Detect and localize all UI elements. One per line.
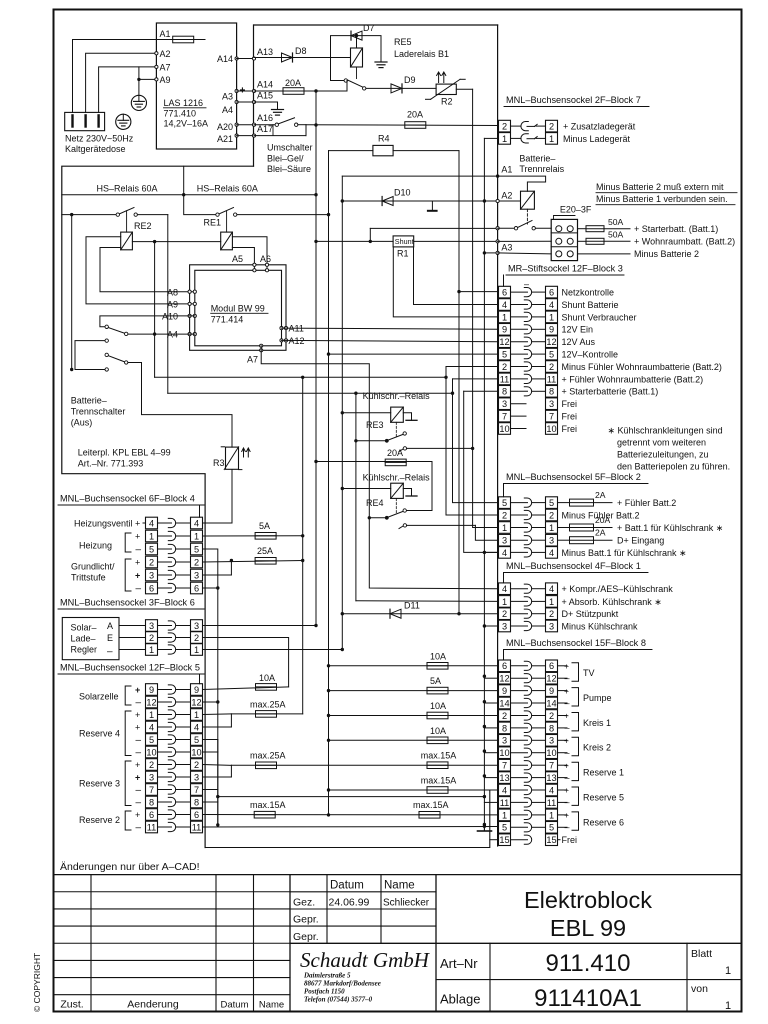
svg-text:A2: A2 — [501, 191, 512, 201]
svg-text:911.410: 911.410 — [546, 950, 631, 977]
svg-text:+ Zusatzladegerät: + Zusatzladegerät — [563, 122, 636, 132]
fuse max15A reserve1 — [427, 762, 448, 769]
svg-text:3: 3 — [502, 399, 507, 409]
svg-text:25A: 25A — [257, 546, 273, 556]
left block pin 10 left box — [146, 746, 158, 758]
wire RE2 coil upper left to A9 — [86, 237, 195, 304]
svg-text:Reserve 5: Reserve 5 — [583, 792, 624, 802]
diode D8 — [282, 53, 293, 62]
svg-text:Name: Name — [259, 1000, 284, 1011]
svg-text:8: 8 — [149, 797, 154, 807]
svg-text:Elektroblock: Elektroblock — [524, 887, 652, 913]
15F8 contact 8 — [511, 727, 528, 729]
wire 6F4 row6 — [203, 587, 218, 589]
wire L to LAS A1 — [73, 40, 157, 113]
wire coil link down to lower rail — [154, 242, 156, 378]
svg-text:RE3: RE3 — [366, 420, 384, 430]
svg-text:E20–3F: E20–3F — [560, 205, 592, 215]
svg-text:Schaudt GmbH: Schaudt GmbH — [300, 948, 431, 972]
svg-text:2: 2 — [149, 760, 154, 770]
svg-text:Umschalter: Umschalter — [267, 143, 313, 153]
4F1 pin 3 right box — [546, 620, 558, 632]
wire 12V-Kontrolle from bus — [327, 352, 330, 355]
MR pin 12 left box — [499, 336, 511, 348]
12F5 elbow — [199, 674, 201, 684]
4F1 pin 4 left box — [499, 583, 511, 595]
svg-text:2: 2 — [549, 362, 554, 372]
15F8 pin 15 right box — [546, 834, 558, 846]
15F8 bracket Reserve 6 — [572, 812, 579, 830]
svg-text:–: – — [136, 785, 142, 796]
svg-text:den Batteriepolen zu führen: den Batteriepolen zu führen. — [617, 462, 730, 472]
svg-text:12: 12 — [499, 674, 509, 684]
svg-text:MNL–Buchsensockel 3F–Block 6: MNL–Buchsensockel 3F–Block 6 — [60, 598, 195, 608]
svg-text:771.410: 771.410 — [164, 109, 197, 119]
svg-text:2: 2 — [502, 711, 507, 721]
svg-text:1: 1 — [549, 523, 554, 533]
15F8 pin 8 right box — [546, 722, 558, 734]
RE3 coil minus stub — [403, 413, 411, 421]
svg-text:Frei: Frei — [562, 424, 578, 434]
left block contact 5 — [158, 548, 172, 550]
svg-text:8: 8 — [194, 797, 199, 807]
Art-Nr row — [436, 942, 742, 944]
svg-text:3: 3 — [502, 536, 507, 546]
svg-text:A14: A14 — [217, 54, 233, 64]
svg-text:–: – — [565, 772, 570, 782]
svg-text:12: 12 — [546, 337, 556, 347]
svg-text:Reserve 2: Reserve 2 — [79, 815, 120, 825]
2F-7 contact 2 — [511, 125, 522, 127]
svg-text:5: 5 — [549, 350, 554, 360]
E20 contact circles — [556, 251, 562, 257]
svg-text:A6: A6 — [260, 254, 271, 264]
left block pin 10 right box — [191, 746, 203, 758]
svg-text:Batterie–: Batterie– — [71, 396, 107, 406]
title block grid — [54, 874, 742, 876]
svg-text:Änderungen nur über A–CAD!: Änderungen nur über A–CAD! — [60, 861, 200, 873]
svg-text:4: 4 — [502, 300, 507, 310]
5F2 fuse 20A — [558, 527, 570, 529]
wire max25A row2 long to block8 — [231, 764, 498, 766]
MR pin 3 left box — [499, 398, 511, 410]
svg-text:LAS 1216: LAS 1216 — [164, 98, 204, 108]
wire top loop — [183, 166, 185, 195]
svg-text:MR–Stiftsockel 12F–Block 3: MR–Stiftsockel 12F–Block 3 — [508, 264, 623, 274]
15F8 pin 6 left box — [499, 660, 511, 672]
left block pin 2 right box — [191, 632, 203, 644]
svg-text:5A: 5A — [430, 676, 441, 686]
15F8 pin 8 left box — [499, 722, 511, 734]
svg-text:7: 7 — [502, 761, 507, 771]
bus netzkontrolle vertical — [458, 151, 460, 614]
left block pin 3 right box — [191, 771, 203, 783]
svg-text:+: + — [135, 723, 140, 733]
wire 12F5 rows 2 3 join — [203, 764, 232, 767]
wire minus A3 line — [484, 252, 497, 254]
svg-text:4: 4 — [502, 584, 507, 594]
svg-text:Frei: Frei — [562, 412, 578, 422]
4F1 pin 1 left box — [499, 596, 511, 608]
svg-text:6: 6 — [502, 288, 507, 298]
svg-text:5: 5 — [502, 823, 507, 833]
svg-text:+: + — [564, 686, 569, 696]
5F2 fuse 2A — [558, 502, 570, 504]
svg-text:A20: A20 — [217, 122, 233, 132]
wire max25A row1 — [231, 713, 302, 715]
svg-text:Art–Nr: Art–Nr — [440, 956, 478, 971]
svg-text:+: + — [135, 760, 140, 770]
svg-text:Datum: Datum — [221, 1000, 249, 1011]
svg-text:5: 5 — [149, 544, 154, 554]
svg-text:6: 6 — [149, 810, 154, 820]
MR elbow — [503, 275, 505, 286]
svg-text:Lade–: Lade– — [71, 634, 96, 644]
15F8 pin 14 left box — [499, 697, 511, 709]
svg-text:4: 4 — [502, 785, 507, 795]
Modul BW99 outer box — [190, 265, 286, 351]
Trennschalter switch 1 — [105, 325, 108, 328]
svg-text:MNL–Buchsensockel 6F–Block 4: MNL–Buchsensockel 6F–Block 4 — [60, 494, 195, 504]
svg-text:13: 13 — [499, 773, 509, 783]
svg-text:+: + — [564, 760, 569, 770]
svg-text:+ Batt.1 für Kühlschrank ∗: + Batt.1 für Kühlschrank ∗ — [617, 523, 723, 533]
left block pin 9 left box — [146, 684, 158, 696]
4F1 contact 1 — [511, 600, 528, 602]
MR pin 2 contact — [511, 366, 528, 368]
svg-text:D8: D8 — [295, 46, 307, 56]
left block pin 1 right box — [191, 644, 203, 656]
protective earth symbol A9 — [131, 95, 146, 110]
diode D9 — [391, 84, 402, 93]
svg-text:–: – — [136, 698, 142, 709]
svg-text:Kreis 1: Kreis 1 — [583, 718, 611, 728]
chassis ground D7 — [375, 61, 387, 63]
bus minus fuehler vertical — [446, 367, 499, 516]
15F8 pin 7 right box — [546, 759, 558, 771]
svg-text:6: 6 — [194, 810, 199, 820]
15F8 pin 4 left box — [499, 784, 511, 796]
svg-text:A4: A4 — [167, 330, 178, 340]
wires solar box to 3F6 — [119, 625, 146, 627]
wire reserve3 minus to bus — [218, 796, 485, 798]
wire RE2 RE1 coil link — [132, 241, 220, 243]
svg-text:2A: 2A — [595, 528, 606, 538]
15F8 pin 5 left box — [499, 822, 511, 834]
svg-text:HS–Relais 60A: HS–Relais 60A — [197, 184, 258, 194]
RE5 switch — [331, 80, 345, 82]
MR pin 5 right box — [546, 348, 558, 360]
svg-text:Heizungsventil: Heizungsventil — [74, 519, 133, 529]
svg-text:HS–Relais 60A: HS–Relais 60A — [97, 184, 158, 194]
MR pin 4 left box — [499, 299, 511, 311]
2F-7 pin 1 left box — [499, 133, 511, 145]
fuse 20A charge line — [405, 122, 426, 129]
wire A7 down right — [261, 346, 498, 589]
svg-text:8: 8 — [502, 723, 507, 733]
MR pin 2 right box — [546, 361, 558, 373]
svg-text:A17: A17 — [257, 124, 273, 134]
svg-text:1: 1 — [549, 810, 554, 820]
svg-text:–: – — [565, 698, 570, 708]
svg-text:2: 2 — [149, 557, 154, 567]
left block pin 2 left box — [146, 632, 158, 644]
svg-text:MNL–Buchsensockel 5F–Block 2: MNL–Buchsensockel 5F–Block 2 — [506, 472, 641, 482]
svg-text:Gepr.: Gepr. — [293, 914, 319, 926]
wire 4F1 row1 feed — [356, 600, 499, 603]
left block contact 10 — [158, 751, 172, 753]
svg-text:8: 8 — [502, 387, 507, 397]
5F2 pin 1 right box — [546, 522, 558, 534]
svg-text:MNL–Buchsensockel 4F–Block 1: MNL–Buchsensockel 4F–Block 1 — [506, 561, 641, 571]
svg-text:11: 11 — [500, 374, 510, 384]
left block pin 7 left box — [146, 784, 158, 796]
svg-text:+: + — [135, 810, 140, 820]
dashed link coil to switch — [526, 209, 528, 224]
15F8 pin 11 right box — [546, 797, 558, 809]
svg-text:3: 3 — [194, 772, 199, 782]
15F8 bracket Kreis 2 — [572, 737, 579, 755]
svg-text:1: 1 — [725, 1000, 731, 1012]
svg-text:Frei: Frei — [562, 399, 578, 409]
svg-text:20A: 20A — [285, 78, 301, 88]
svg-text:Zust.: Zust. — [60, 999, 83, 1011]
svg-text:2: 2 — [502, 609, 507, 619]
svg-text:3: 3 — [549, 736, 554, 746]
fuse inside LAS on A1 — [156, 39, 205, 41]
left block pin 12 right box — [191, 696, 203, 708]
15F8 pin 13 right box — [546, 772, 558, 784]
svg-text:1: 1 — [502, 312, 507, 322]
svg-text:1: 1 — [549, 312, 554, 322]
15F8 pin 12 left box — [499, 672, 511, 684]
5F2 contact 3 — [511, 539, 528, 541]
svg-text:MNL–Buchsensockel 15F–Block: MNL–Buchsensockel 15F–Block 8 — [506, 638, 646, 648]
svg-text:11: 11 — [547, 374, 557, 384]
svg-text:12: 12 — [546, 674, 556, 684]
2F-7 contact 1 — [511, 137, 522, 139]
svg-text:Name: Name — [384, 880, 415, 892]
svg-text:–: – — [565, 673, 570, 683]
svg-text:2: 2 — [549, 122, 554, 132]
svg-text:Reserve 4: Reserve 4 — [79, 729, 120, 739]
svg-text:911410A1: 911410A1 — [534, 985, 642, 1012]
svg-text:2: 2 — [149, 633, 154, 643]
15F8 contact 13 — [511, 777, 528, 779]
svg-text:9: 9 — [549, 686, 554, 696]
svg-text:4: 4 — [549, 300, 554, 310]
RE4 output arrow wire — [399, 526, 403, 529]
bus hs out vertical — [328, 151, 330, 815]
relay RE4 coil — [391, 483, 404, 498]
svg-text:TV: TV — [583, 668, 595, 678]
15F8 pin 1 left box — [499, 809, 511, 821]
svg-text:+: + — [564, 711, 569, 721]
svg-text:1: 1 — [502, 810, 507, 820]
svg-text:11: 11 — [500, 798, 510, 808]
svg-text:Reserve 3: Reserve 3 — [79, 779, 120, 789]
minus tie vertical left — [217, 740, 219, 825]
wire 6F4 row3 — [203, 574, 232, 576]
svg-text:4: 4 — [549, 584, 554, 594]
svg-text:RE4: RE4 — [366, 498, 384, 508]
svg-text:RE5: RE5 — [394, 37, 412, 47]
svg-text:–: – — [565, 797, 570, 807]
svg-text:12V Aus: 12V Aus — [562, 337, 596, 347]
left block pin 2 left box — [146, 759, 158, 771]
svg-text:Minus Batterie 1 verbunden: Minus Batterie 1 verbunden sein. — [596, 194, 728, 204]
left block pin 4 left box — [146, 517, 158, 529]
wire shunt left — [316, 240, 393, 242]
15F8 contact 4 — [511, 789, 528, 791]
svg-text:2: 2 — [549, 510, 554, 520]
svg-text:Minus Batt.1 für Kühlschran: Minus Batt.1 für Kühlschrank ∗ — [562, 548, 687, 558]
svg-text:Leiterpl. KPL EBL 4–99: Leiterpl. KPL EBL 4–99 — [78, 448, 171, 458]
resistor R2 adjustable — [436, 84, 456, 94]
svg-text:1: 1 — [149, 531, 154, 541]
wire minus to 4F1 pin3 — [484, 625, 498, 627]
svg-text:3: 3 — [549, 399, 554, 409]
svg-text:+ Absorb. Kühlschrank ∗: + Absorb. Kühlschrank ∗ — [562, 597, 662, 607]
wire A12 to MR pin12 — [282, 340, 499, 341]
diode D10 — [382, 196, 393, 205]
wire hs bus upper — [62, 194, 316, 196]
svg-text:Pumpe: Pumpe — [583, 693, 612, 703]
svg-text:+: + — [135, 571, 140, 581]
left block pin 3 left box — [146, 569, 158, 581]
svg-text:3: 3 — [549, 621, 554, 631]
svg-text:Art.–Nr. 771.393: Art.–Nr. 771.393 — [78, 459, 144, 469]
svg-text:+ Wohnraumbatt. (Batt.2): + Wohnraumbatt. (Batt.2) — [634, 237, 735, 247]
bus starterbatt sense vertical — [464, 391, 499, 552]
MR pin 1 contact — [511, 316, 528, 318]
4F1 contact 3 — [511, 625, 528, 627]
svg-text:2: 2 — [502, 510, 507, 520]
left block contact 3 — [158, 574, 172, 576]
MR pin 9 left box — [499, 324, 511, 336]
left block contact 4 — [158, 522, 172, 524]
left block pin 7 right box — [191, 784, 203, 796]
5F2 contact 4 — [511, 551, 528, 553]
15F8 contact 7 — [511, 764, 528, 766]
wire E20 row1 to fuse 50A — [578, 228, 587, 230]
wire 6F4 row4 to R3 — [203, 522, 233, 524]
left block pin 4 right box — [191, 721, 203, 733]
svg-text:A: A — [107, 621, 113, 631]
svg-text:Trennrelais: Trennrelais — [519, 164, 564, 174]
left block contact 1 — [158, 714, 172, 716]
bus solar plus vertical — [302, 377, 304, 714]
left block contact 2 — [158, 764, 172, 766]
left block pin 1 right box — [191, 709, 203, 721]
MR pin 6 right box — [546, 286, 558, 298]
wire 3F6 row1 to bus — [203, 649, 343, 651]
svg-text:6: 6 — [502, 661, 507, 671]
svg-text:A1: A1 — [160, 29, 171, 39]
svg-text:1: 1 — [502, 134, 507, 144]
4F1 pin 2 right box — [546, 608, 558, 620]
15F8 pin 5 right box — [546, 822, 558, 834]
left block pin 8 right box — [191, 796, 203, 808]
svg-text:1: 1 — [502, 597, 507, 607]
wire block7 pin1 to minus bus — [484, 137, 498, 139]
svg-text:Shunt Verbraucher: Shunt Verbraucher — [562, 312, 637, 322]
wire 3F6 row3 to bus — [203, 625, 317, 627]
svg-text:A1: A1 — [501, 165, 512, 175]
wire D7 loop — [331, 36, 382, 81]
wires block8 plus fuses — [329, 665, 499, 667]
svg-text:6: 6 — [194, 583, 199, 593]
wire A2 from bus to relay coil — [342, 200, 520, 202]
wire lower rail 2 — [168, 392, 453, 394]
svg-text:A7: A7 — [160, 63, 171, 73]
left block pin 5 right box — [191, 543, 203, 555]
wires minus rows to bus — [484, 677, 498, 679]
15F8 label Frei — [558, 839, 561, 841]
left block pin 3 left box — [146, 771, 158, 783]
svg-text:D9: D9 — [404, 75, 416, 85]
svg-text:4: 4 — [194, 722, 199, 732]
svg-text:Batterie–: Batterie– — [519, 154, 555, 164]
svg-text:Minus Batterie 2: Minus Batterie 2 — [634, 249, 699, 259]
left block contact 6 — [158, 814, 172, 816]
MR pin 5 contact — [511, 353, 528, 355]
15F8 contact 5 — [511, 826, 528, 828]
svg-text:Trennschalter: Trennschalter — [71, 407, 126, 417]
relay Trennrelais coil — [521, 191, 535, 209]
bus battery1 vertical — [341, 176, 343, 649]
left block pin 5 left box — [146, 543, 158, 555]
diode D7 — [351, 31, 362, 40]
svg-text:2: 2 — [502, 362, 507, 372]
left block pin 2 right box — [191, 556, 203, 568]
MR pin 9 right box — [546, 324, 558, 336]
svg-text:Blatt: Blatt — [691, 948, 712, 960]
svg-text:RE1: RE1 — [204, 218, 222, 228]
MR pin 8 right box — [546, 386, 558, 398]
wire row15 stub — [490, 839, 499, 841]
chassis ground A15 — [272, 109, 284, 111]
svg-text:3: 3 — [149, 570, 154, 580]
left block contact 7 — [158, 789, 172, 791]
svg-text:5: 5 — [549, 498, 554, 508]
4F1 contact 4 — [511, 588, 528, 590]
svg-text:7: 7 — [549, 412, 554, 422]
svg-text:Laderelais B1: Laderelais B1 — [394, 49, 449, 59]
svg-text:1: 1 — [194, 645, 199, 655]
svg-text:+: + — [135, 710, 140, 720]
svg-text:5: 5 — [502, 498, 507, 508]
wire E20 row2 to fuse 50A — [578, 240, 587, 242]
15F8 contact 6 — [511, 665, 528, 667]
arrows beside R3 — [242, 448, 246, 457]
left block pin 1 left box — [146, 644, 158, 656]
svg-text:7: 7 — [149, 785, 154, 795]
MR pin 1 left box — [499, 311, 511, 323]
left block pin 11 left box — [146, 821, 158, 833]
svg-text:2: 2 — [194, 760, 199, 770]
svg-text:–: – — [107, 647, 113, 658]
fuse 20A kuehlschrank — [316, 461, 432, 463]
svg-text:12: 12 — [191, 697, 201, 707]
svg-text:MNL–Buchsensockel 2F–Block 7: MNL–Buchsensockel 2F–Block 7 — [506, 95, 641, 105]
left block pin 8 left box — [146, 796, 158, 808]
mains connector prongs — [71, 115, 73, 126]
5F2 pin 4 left box — [499, 547, 511, 559]
left block pin 11 right box — [191, 821, 203, 833]
left board section outline — [62, 166, 254, 847]
15F8 pin 12 right box — [546, 672, 558, 684]
